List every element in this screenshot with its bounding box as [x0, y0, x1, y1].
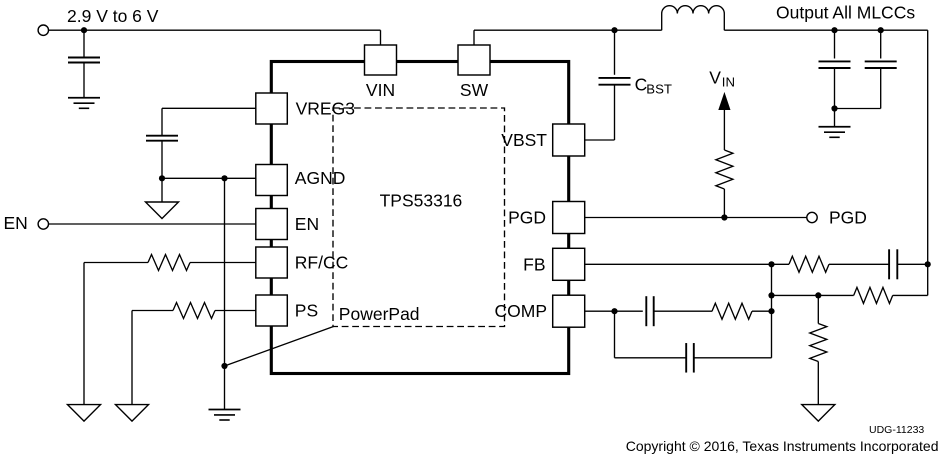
- wire PS pin to resistor: [215, 310, 256, 312]
- wire VIN arrow to resistor: [723, 109, 725, 151]
- capacitor output 2: [865, 60, 897, 62]
- svg-text:V: V: [709, 68, 721, 88]
- svg-text:VIN: VIN: [366, 80, 395, 100]
- node PGD junction: [721, 214, 727, 220]
- wire feedforward resistor to cap: [829, 263, 889, 265]
- svg-text:Output All MLCCs: Output All MLCCs: [776, 2, 915, 22]
- svg-text:PGD: PGD: [829, 208, 867, 228]
- wire PGD pin to terminal: [585, 217, 807, 219]
- ground earth output caps: [819, 126, 851, 128]
- resistor feedforward: [789, 256, 829, 272]
- wire RFCC pin to resistor: [190, 262, 256, 264]
- svg-text:AGND: AGND: [295, 168, 346, 188]
- node output junction 2: [878, 27, 884, 33]
- wire RFCC resistor left: [84, 262, 148, 264]
- resistor divider top: [854, 287, 893, 303]
- resistor divider bottom: [810, 324, 827, 362]
- wire to AGND triangle: [161, 178, 163, 202]
- wire COMP lower left: [615, 357, 687, 359]
- svg-text:2.9 V to 6 V: 2.9 V to 6 V: [67, 6, 159, 26]
- wire FB node down: [771, 264, 773, 311]
- node output cap ground junction: [831, 105, 837, 111]
- wire divider top resistor to rail: [893, 294, 928, 296]
- wire CBST to VBST pin: [585, 139, 615, 141]
- wire CBST bottom: [614, 85, 616, 140]
- wire output rail right edge: [927, 30, 929, 295]
- capacitor input bypass: [68, 57, 100, 59]
- IC U1 PowerPad dashed outline: [333, 108, 505, 327]
- node feedforward rail junction: [925, 261, 931, 267]
- wire output caps join: [835, 108, 881, 110]
- node divider mid: [815, 292, 821, 298]
- wire FB pin to node: [585, 263, 789, 265]
- wire divider bottom to ground: [817, 362, 819, 405]
- wire divider bottom drop: [817, 295, 819, 323]
- wire SW pin riser: [473, 30, 475, 45]
- wire COMP resistor to node: [752, 310, 772, 312]
- pin VBST: [553, 124, 585, 156]
- pin EN: [256, 209, 287, 240]
- resistor PGD pull-up: [716, 150, 733, 189]
- svg-text:PGD: PGD: [508, 208, 546, 228]
- capacitor output 1 bottom wire: [834, 68, 836, 109]
- pin VIN: [365, 45, 397, 75]
- ground earth AGND: [209, 409, 241, 411]
- capacitor output 2 top wire: [880, 30, 882, 58]
- wire feedforward cap to rail: [897, 263, 927, 265]
- node AGND rail junction: [221, 175, 227, 181]
- terminal input 2.9V-6V: [38, 25, 48, 35]
- pin VREG3: [256, 93, 287, 124]
- svg-text:EN: EN: [295, 214, 319, 234]
- inductor L1: [662, 6, 725, 31]
- wire resistor to PGD line: [723, 189, 725, 218]
- wire PS resistor left: [132, 310, 173, 312]
- wire RFCC drop: [83, 263, 85, 405]
- wire PowerPad diagonal: [225, 327, 334, 367]
- svg-text:BST: BST: [646, 81, 672, 96]
- capacitor output 1 top wire: [834, 30, 836, 58]
- wire COMP lower riser: [771, 311, 773, 358]
- pin FB: [553, 248, 585, 280]
- wire inductor to output corner: [724, 29, 927, 31]
- pin PS: [256, 295, 287, 326]
- ground triangle divider: [802, 405, 835, 422]
- wire VREG3 pin left: [162, 107, 256, 109]
- wire COMP pin to node: [585, 310, 643, 312]
- ground triangle PS: [116, 405, 149, 422]
- svg-text:IN: IN: [722, 74, 735, 89]
- ground earth input: [68, 97, 100, 99]
- node PowerPad junction: [221, 363, 227, 369]
- capacitor COMP parallel: [685, 343, 687, 373]
- wire to output ground: [834, 109, 836, 127]
- pin AGND: [256, 165, 287, 196]
- wire COMP lower drop: [614, 311, 616, 358]
- IC U1 TPS53316 body outline: [271, 62, 568, 374]
- capacitor feedforward: [888, 249, 890, 279]
- svg-text:FB: FB: [523, 254, 545, 274]
- resistor PS: [173, 303, 215, 319]
- svg-text:SW: SW: [460, 80, 489, 100]
- wire input cap bottom: [83, 63, 85, 98]
- resistor COMP series: [712, 303, 752, 319]
- ground triangle VREG3: [146, 202, 179, 219]
- node VREG3 AGND junction: [159, 175, 165, 181]
- pin PGD: [553, 202, 585, 234]
- capacitor CBST: [599, 77, 631, 79]
- capacitor output 1: [819, 60, 851, 62]
- wire COMP cap to resistor: [654, 310, 713, 312]
- wire SW to inductor: [474, 29, 662, 31]
- svg-text:TPS53316: TPS53316: [380, 190, 463, 210]
- node FB junction: [768, 261, 774, 267]
- capacitor output 2 bottom wire: [880, 68, 882, 109]
- svg-text:EN: EN: [4, 213, 28, 233]
- wire divider tap: [772, 294, 854, 296]
- wire input rail to VIN: [49, 29, 381, 31]
- wire VREG3 cap drop: [161, 108, 163, 135]
- terminal PGD: [807, 212, 817, 222]
- capacitor COMP series: [645, 296, 647, 326]
- svg-text:VREG3: VREG3: [296, 98, 355, 118]
- pin COMP: [553, 295, 585, 327]
- svg-text:Copyright © 2016, Texas Instru: Copyright © 2016, Texas Instruments Inco…: [626, 438, 939, 454]
- terminal EN: [38, 219, 48, 229]
- ground triangle RFCC: [68, 405, 101, 422]
- capacitor VREG3 bypass: [146, 135, 178, 137]
- wire EN to pin: [49, 223, 256, 225]
- pin RF/CC: [256, 247, 287, 278]
- wire PS drop: [131, 311, 133, 405]
- resistor RFCC: [148, 255, 190, 271]
- node divider tap left: [768, 292, 774, 298]
- node COMP junction: [611, 308, 617, 314]
- wire AGND vertical rail: [224, 178, 226, 409]
- pin SW: [458, 45, 490, 75]
- wire COMP lower right: [694, 357, 772, 359]
- node SW junction: [611, 27, 617, 33]
- svg-text:UDG-11233: UDG-11233: [869, 424, 924, 436]
- svg-text:RF/CC: RF/CC: [295, 253, 348, 273]
- svg-text:PowerPad: PowerPad: [339, 304, 420, 324]
- wire AGND pin left: [162, 177, 256, 179]
- node input junction: [81, 27, 87, 33]
- node output junction 1: [831, 27, 837, 33]
- node COMP net right: [768, 308, 774, 314]
- svg-text:PS: PS: [295, 301, 318, 321]
- wire VIN pin drop: [380, 30, 382, 45]
- wire input cap top: [83, 30, 85, 57]
- wire VREG3 cap to AGND line: [161, 141, 163, 179]
- arrow VIN up: [719, 94, 730, 110]
- wire CBST top: [614, 30, 616, 75]
- svg-text:COMP: COMP: [495, 301, 548, 321]
- svg-text:VBST: VBST: [501, 130, 547, 150]
